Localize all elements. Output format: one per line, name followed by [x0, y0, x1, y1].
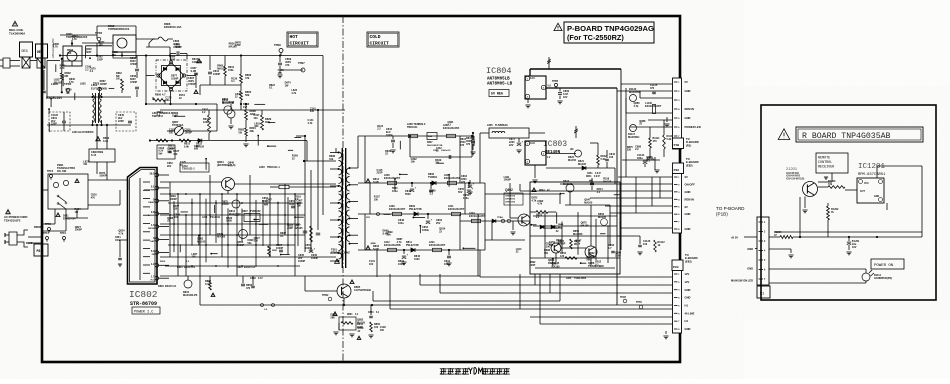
svg-text:12V: 12V: [685, 272, 690, 276]
svg-text:GND: GND: [685, 212, 691, 216]
svg-text:GND: GND: [747, 247, 753, 251]
svg-text:DEG: DEG: [22, 50, 28, 54]
svg-text:GND: GND: [685, 288, 691, 292]
svg-text:GND: GND: [685, 190, 691, 194]
svg-text:12V: 12V: [685, 280, 690, 284]
svg-text:REM IN: REM IN: [685, 107, 694, 111]
svg-text:H1: H1: [685, 304, 689, 308]
svg-text:DEG: DEG: [37, 50, 43, 54]
svg-text:TO P-BOARD: TO P-BOARD: [716, 206, 745, 211]
svg-text:MAIN SW ON LED: MAIN SW ON LED: [731, 279, 753, 283]
svg-text:GND: GND: [685, 296, 691, 300]
svg-text:BLUE: BLUE: [26, 242, 33, 245]
svg-text:GND: GND: [685, 227, 691, 231]
svg-text:H1: H1: [685, 319, 689, 323]
svg-text:(P1B): (P1B): [716, 212, 728, 217]
svg-text:L802: L802: [80, 83, 86, 86]
svg-text:REM IN: REM IN: [685, 197, 694, 201]
svg-text:MA150: MA150: [196, 145, 205, 148]
svg-text:9V: 9V: [685, 205, 688, 209]
svg-text:(E83): (E83): [685, 259, 692, 263]
svg-text:TSX4G101F2: TSX4G101F2: [4, 218, 21, 222]
svg-text:POWER LED: POWER LED: [685, 125, 701, 129]
svg-text:GND: GND: [685, 89, 691, 93]
svg-text:GND: GND: [685, 116, 691, 120]
svg-text:46 LINE: 46 LINE: [685, 311, 695, 315]
svg-text:6.3V: 6.3V: [159, 151, 164, 153]
svg-text:P81: P81: [37, 249, 43, 253]
svg-text:TPT8: TPT8: [636, 302, 642, 304]
svg-text:GND: GND: [747, 267, 753, 271]
svg-text:2kV: 2kV: [167, 165, 172, 168]
svg-text:5V: 5V: [685, 80, 688, 84]
svg-text:C818: C818: [159, 148, 165, 150]
svg-text:GND: GND: [685, 327, 691, 331]
svg-text:TLK26006A: TLK26006A: [9, 32, 26, 36]
svg-text:ON-OFF: ON-OFF: [685, 183, 696, 187]
svg-text:(E82): (E82): [686, 163, 693, 167]
svg-text:9V: 9V: [685, 175, 688, 179]
svg-text:(R1): (R1): [686, 143, 691, 147]
svg-text:5.9k: 5.9k: [184, 145, 189, 148]
svg-text:+B 5V: +B 5V: [731, 236, 739, 240]
svg-text:TPF8: TPF8: [93, 83, 100, 86]
